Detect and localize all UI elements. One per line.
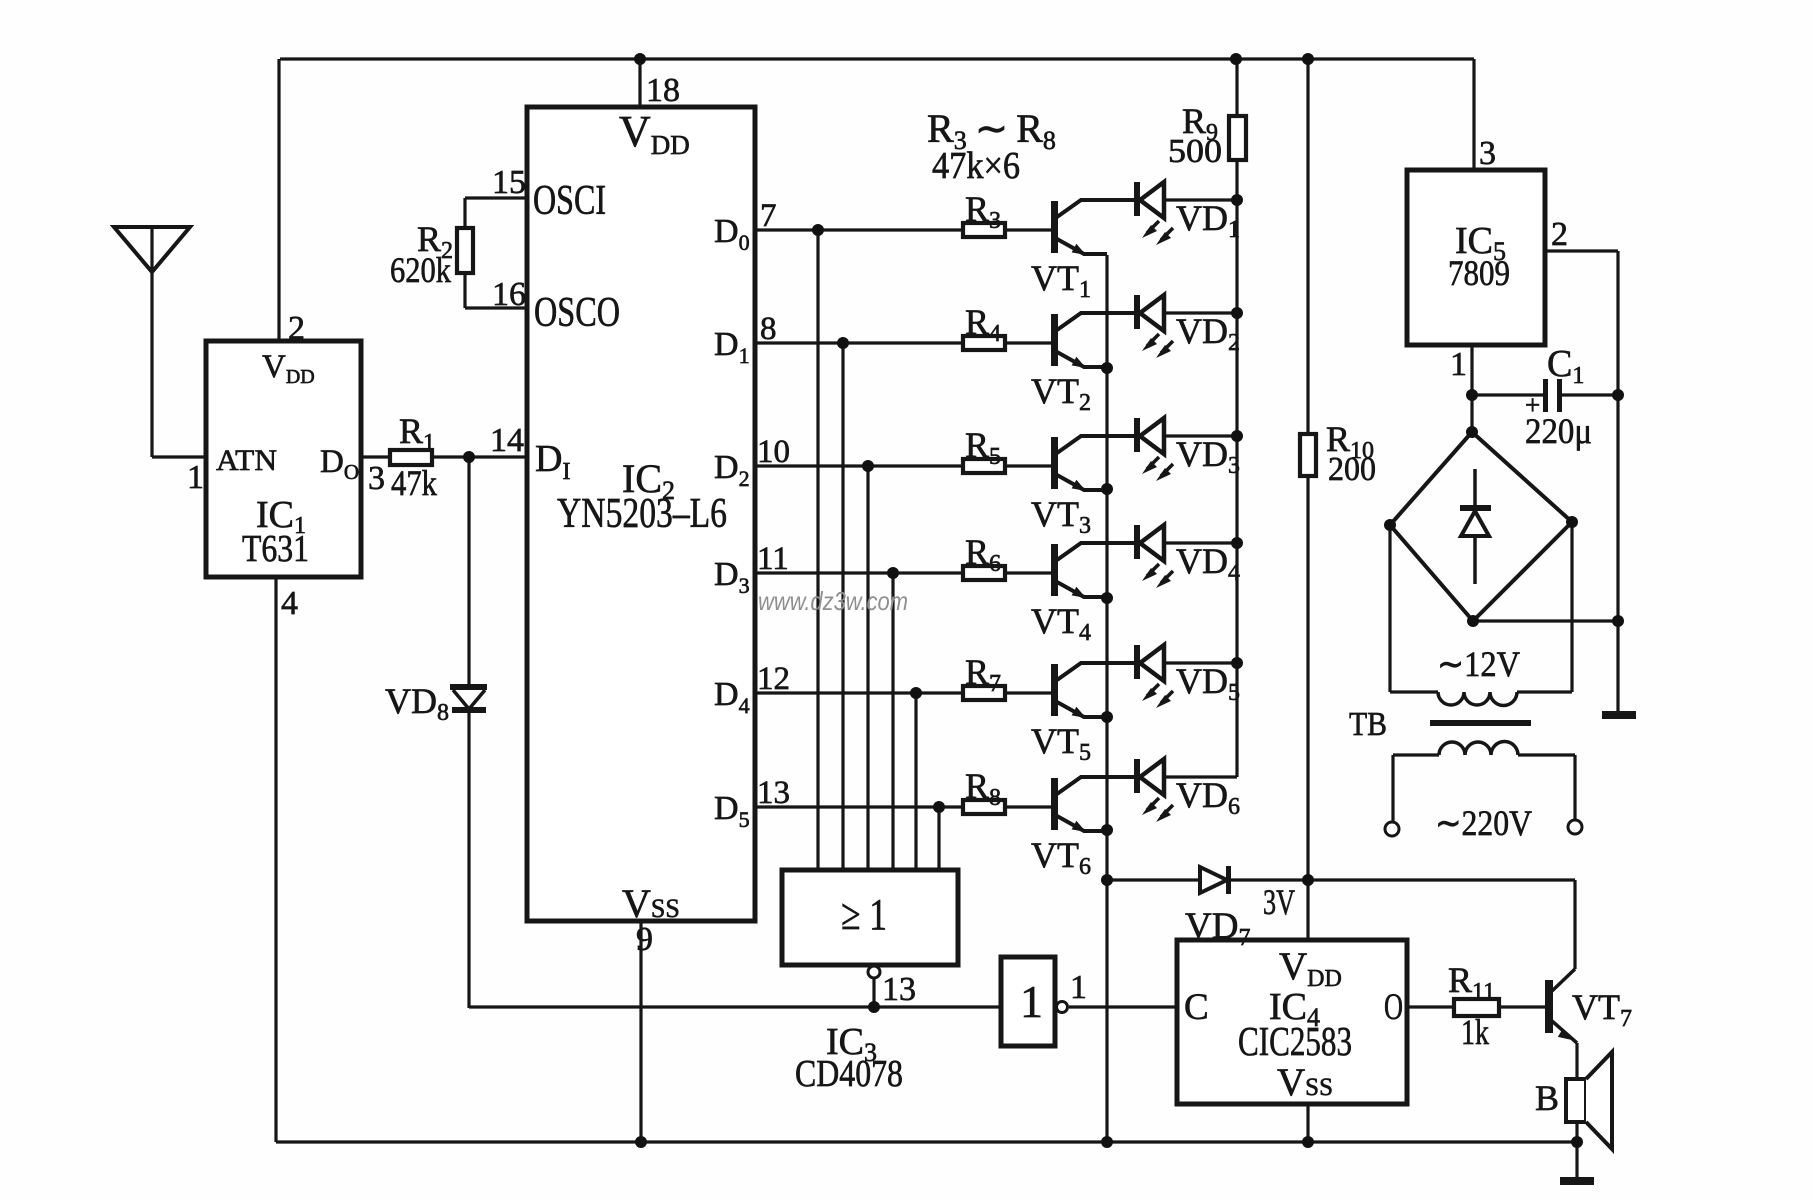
svg-text:620k: 620k <box>390 250 451 290</box>
svg-text:9: 9 <box>636 921 653 958</box>
svg-text:47k: 47k <box>391 463 437 503</box>
svg-text:YN5203–L6: YN5203–L6 <box>557 491 727 537</box>
svg-text:18: 18 <box>646 72 680 109</box>
svg-text:3V: 3V <box>1263 882 1295 922</box>
svg-text:≥ 1: ≥ 1 <box>841 890 887 939</box>
svg-text:500: 500 <box>1168 133 1222 170</box>
svg-text:200: 200 <box>1328 451 1376 488</box>
svg-text:10: 10 <box>757 434 790 470</box>
svg-text:1: 1 <box>1450 346 1467 383</box>
svg-text:7: 7 <box>760 198 777 234</box>
svg-text:CIC2583: CIC2583 <box>1238 1018 1352 1064</box>
svg-text:8: 8 <box>760 311 777 347</box>
svg-text:4: 4 <box>281 585 298 622</box>
svg-text:3: 3 <box>1479 135 1496 172</box>
svg-text:12: 12 <box>757 661 790 697</box>
svg-text:13: 13 <box>882 971 916 1008</box>
svg-text:OSCI: OSCI <box>533 178 606 224</box>
svg-text:∼12V: ∼12V <box>1437 644 1520 684</box>
svg-text:2: 2 <box>1551 216 1568 253</box>
svg-text:220μ: 220μ <box>1525 411 1592 451</box>
svg-text:7809: 7809 <box>1448 253 1510 293</box>
svg-text:www.dz3w.com: www.dz3w.com <box>758 586 908 616</box>
svg-text:OSCO: OSCO <box>534 290 620 336</box>
svg-text:14: 14 <box>490 422 524 459</box>
svg-text:B: B <box>1535 1078 1559 1118</box>
svg-text:CD4078: CD4078 <box>795 1053 903 1095</box>
svg-text:TB: TB <box>1349 706 1387 743</box>
svg-text:1: 1 <box>1070 969 1087 1006</box>
svg-text:16: 16 <box>492 276 526 313</box>
svg-text:1k: 1k <box>1461 1012 1489 1052</box>
svg-text:2: 2 <box>288 310 305 347</box>
svg-text:3: 3 <box>368 460 385 497</box>
svg-text:ATN: ATN <box>216 444 277 477</box>
svg-text:∼220V: ∼220V <box>1435 803 1532 843</box>
svg-text:C: C <box>1184 987 1209 1028</box>
svg-text:1: 1 <box>187 459 204 496</box>
svg-text:47k×6: 47k×6 <box>932 145 1020 187</box>
svg-text:O: O <box>1384 987 1403 1028</box>
svg-text:T631: T631 <box>242 528 309 570</box>
svg-text:11: 11 <box>757 541 789 577</box>
svg-text:1: 1 <box>1020 976 1043 1027</box>
svg-text:15: 15 <box>492 164 526 201</box>
svg-text:13: 13 <box>757 775 790 811</box>
